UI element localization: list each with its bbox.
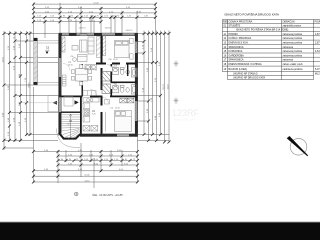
wire dim line b7 xyxy=(34,181,138,183)
node ticks line3 xyxy=(32,11,157,14)
svg-text:17: 17 xyxy=(224,59,227,62)
kitchen left column units xyxy=(83,103,98,131)
coffee table living xyxy=(72,46,78,51)
svg-text:26,10: 26,10 xyxy=(68,64,73,66)
svg-text:OZNAKA PROSTORA: OZNAKA PROSTORA xyxy=(229,21,253,24)
balcony slab lines xyxy=(34,41,59,85)
table grid xyxy=(223,20,320,80)
wire extension lines right xyxy=(138,34,170,141)
svg-text:zatvorena povšina: zatvorena povšina xyxy=(283,54,303,57)
desk bedroom BR xyxy=(105,100,110,105)
svg-text:C7: C7 xyxy=(114,65,118,67)
svg-text:11,10: 11,10 xyxy=(84,180,90,182)
window glass lines top wall xyxy=(62,33,135,35)
label numbers right rotated xyxy=(142,44,169,120)
bath1 wc xyxy=(120,68,124,75)
door arc bath1 xyxy=(121,65,127,71)
svg-text:BALKON (LOĐA): BALKON (LOĐA) xyxy=(229,68,248,71)
svg-text:12,6: 12,6 xyxy=(67,124,71,126)
svg-text:4,64: 4,64 xyxy=(315,50,320,53)
wire dim line b3 xyxy=(58,160,138,162)
bath1 bidet xyxy=(126,70,129,75)
svg-text:natkrivena povšina: natkrivena povšina xyxy=(283,68,304,71)
svg-text:STUBIŠTE: STUBIŠTE xyxy=(229,24,241,27)
node ticks line5 xyxy=(32,20,103,23)
washer dryer pair corridor xyxy=(85,65,96,70)
svg-text:zajednički prostor: zajednički prostor xyxy=(283,24,302,27)
sofa living room piece A xyxy=(78,34,95,62)
svg-text:5,07: 5,07 xyxy=(315,68,320,71)
wire vertical dim lines right xyxy=(144,31,169,143)
stairs treads xyxy=(61,114,81,139)
wall interior kitchen horizontal xyxy=(59,96,138,98)
svg-text:zatvorena povšina: zatvorena povšina xyxy=(283,37,303,40)
wall stairwell top xyxy=(61,112,80,113)
wall left exterior xyxy=(59,33,62,136)
wall interior bedroom divider vertical xyxy=(101,36,103,134)
wire dim line 1 xyxy=(34,3,156,5)
svg-text:HODNIK: HODNIK xyxy=(229,33,239,36)
wall interior hall divider vertical xyxy=(82,64,84,96)
dining table with chairs xyxy=(71,65,91,85)
level marker circle xyxy=(74,192,78,196)
corridor closet row xyxy=(83,91,96,96)
svg-text:240/120: 240/120 xyxy=(126,30,133,32)
svg-text:12,20: 12,20 xyxy=(93,3,99,5)
svg-text:C6: C6 xyxy=(109,59,113,61)
svg-text:11: 11 xyxy=(224,33,227,36)
black footer bar xyxy=(0,222,320,240)
svg-text:+0,5: +0,5 xyxy=(45,50,50,52)
window glass line bottom wall xyxy=(117,134,129,136)
node ticks left column xyxy=(3,32,32,150)
bath1 sink counter xyxy=(112,68,118,75)
nightstand TR bed b xyxy=(130,54,133,59)
svg-text:11,50: 11,50 xyxy=(2,57,4,63)
label window tags above wall xyxy=(79,28,133,32)
wire extension lines top xyxy=(34,3,156,38)
side rail bedroom BR xyxy=(104,112,106,132)
svg-text:POVRŠ: POVRŠ xyxy=(315,21,320,24)
wire dim line b1 xyxy=(34,151,138,153)
wire dim line b5 xyxy=(34,170,138,172)
wardrobe hatched living xyxy=(97,37,101,58)
node ticks bottom lines xyxy=(32,150,139,184)
balcony left railing xyxy=(34,38,38,85)
svg-text:zatvorena: zatvorena xyxy=(283,59,294,62)
door arc bedroom TR xyxy=(107,65,113,71)
svg-text:10,70: 10,70 xyxy=(163,84,165,90)
bath1 tub xyxy=(131,68,136,77)
table vertical lines xyxy=(228,20,314,80)
svg-text:15: 15 xyxy=(224,50,227,53)
label numbers bottom xyxy=(44,150,136,183)
svg-text:ISKAZ NETO POVRŠINA DRUGOG KAT: ISKAZ NETO POVRŠINA DRUGOG KATA xyxy=(225,11,280,16)
door arc hall divider xyxy=(83,75,89,81)
svg-text:13,10: 13,10 xyxy=(115,107,120,109)
wall interior baths horizontal split xyxy=(111,82,137,84)
svg-text:C1: C1 xyxy=(111,107,115,109)
svg-text:16: 16 xyxy=(224,54,227,57)
svg-text:15,87: 15,87 xyxy=(113,59,118,61)
wire extension lines left xyxy=(4,34,58,149)
svg-text:GARDEROBA: GARDEROBA xyxy=(229,54,245,57)
wall top exterior xyxy=(59,33,138,36)
svg-text:zatvorena povšina: zatvorena povšina xyxy=(283,42,303,45)
wire extension lines bottom xyxy=(34,87,138,188)
svg-text:13: 13 xyxy=(224,42,227,45)
wall interior mid horizontal xyxy=(96,63,137,65)
svg-text:DNEVNI BORAVAK I KUHINJA: DNEVNI BORAVAK I KUHINJA xyxy=(229,63,263,66)
svg-text:OBRAČUN: OBRAČUN xyxy=(283,21,295,24)
table row texts xyxy=(223,21,320,80)
landing arrow xyxy=(75,100,79,104)
node ticks right column xyxy=(143,32,171,144)
table horizontal lines xyxy=(223,24,320,66)
node ticks line4 xyxy=(32,16,157,19)
radiator left wall xyxy=(63,75,67,86)
wall interior bath divider vertical xyxy=(111,64,113,67)
svg-text:KUĆNA / PRAONICA: KUĆNA / PRAONICA xyxy=(229,37,252,40)
svg-text:C5: C5 xyxy=(114,84,118,86)
bath2 sink counter xyxy=(112,86,118,93)
wall stairwell right vertical xyxy=(80,97,82,135)
wall bottom exterior xyxy=(80,134,138,137)
door arc living entry xyxy=(63,64,70,71)
wire dim line 5 xyxy=(34,21,102,23)
svg-text:123RF: 123RF xyxy=(172,108,200,118)
wire dim line b6 xyxy=(34,175,138,177)
wardrobe hatched bedroom TR xyxy=(103,36,106,56)
node ticks line2 xyxy=(32,7,157,10)
svg-text:DNEVNI B.S KUH.: DNEVNI B.S KUH. xyxy=(229,42,249,45)
wire dim line 4 xyxy=(34,16,156,18)
svg-text:4,87: 4,87 xyxy=(315,33,320,36)
svg-text:zatvorena povšina: zatvorena povšina xyxy=(283,33,303,36)
landing closet xyxy=(64,97,73,107)
svg-text:UKUPNO NP STANA 5: UKUPNO NP STANA 5 xyxy=(233,73,258,76)
round chair living xyxy=(73,58,77,62)
table outer border xyxy=(223,20,320,72)
svg-text:KUPAONICA: KUPAONICA xyxy=(229,50,243,53)
svg-text:REL. ±0,00=APS. +10,85: REL. ±0,00=APS. +10,85 xyxy=(93,193,124,197)
svg-text:86,2: 86,2 xyxy=(315,73,320,76)
bath2 bidet xyxy=(126,87,129,92)
wardrobe hatched pair bedroom BR xyxy=(120,98,134,103)
north arrow xyxy=(287,136,308,156)
wall interior bath split vertical xyxy=(127,64,128,76)
window glass lines right wall xyxy=(135,42,137,122)
svg-text:14: 14 xyxy=(224,46,227,49)
benchmark symbol 2 xyxy=(174,98,179,105)
window sill arrow xyxy=(53,101,58,105)
svg-text:zatvorena: zatvorena xyxy=(283,46,294,49)
svg-text:ISKAZ NETO POVRŠINA STANA BR 5: ISKAZ NETO POVRŠINA STANA BR 5 (4 SOBE) xyxy=(236,29,288,32)
svg-text:140/120: 140/120 xyxy=(105,28,112,30)
svg-text:www.123rf.com: www.123rf.com xyxy=(174,118,195,122)
svg-text:zatvor.+natkr. povš.: zatvor.+natkr. povš. xyxy=(283,63,304,66)
node ticks line1 xyxy=(32,3,157,6)
svg-text:2,87: 2,87 xyxy=(315,42,320,45)
svg-text:10,15: 10,15 xyxy=(28,82,30,88)
svg-text:19: 19 xyxy=(224,68,227,71)
wire dim line b4 xyxy=(58,164,138,166)
wire dim line 2 xyxy=(34,8,156,10)
svg-text:9,25: 9,25 xyxy=(92,114,96,116)
window glass lines left wall xyxy=(59,58,61,112)
door arc bedroom BR xyxy=(103,98,109,104)
wall stair bay chamfer xyxy=(59,133,81,139)
bed bedroom top-right xyxy=(115,41,130,58)
svg-text:UKUPNO NP DRUGOG KATA: UKUPNO NP DRUGOG KATA xyxy=(233,77,266,80)
bath2 tub xyxy=(131,85,136,94)
svg-text:SPAVAONICA: SPAVAONICA xyxy=(229,46,244,49)
wire vertical dim lines left xyxy=(4,31,30,150)
svg-text:zatvorena povšina: zatvorena povšina xyxy=(283,50,303,53)
svg-text:11,10: 11,10 xyxy=(167,84,169,90)
nightstand TR bed a xyxy=(130,38,133,43)
kitchen counter top xyxy=(83,98,99,102)
svg-text:10,45: 10,45 xyxy=(84,175,90,177)
door arc corridor to bath1 xyxy=(91,65,97,71)
tv cabinet left wall xyxy=(62,37,65,52)
label numbers left rotated xyxy=(2,36,30,136)
bed bedroom bottom-right xyxy=(115,111,132,132)
svg-text:01: 01 xyxy=(224,24,227,27)
svg-text:140/120: 140/120 xyxy=(79,28,86,30)
wire dim line 3 xyxy=(34,12,156,14)
label numbers top xyxy=(37,3,149,23)
shaft upper hatched xyxy=(102,72,111,82)
shaft lower hatched xyxy=(102,84,111,94)
left wall window ledge box xyxy=(48,96,59,112)
table bottom extra rows xyxy=(228,72,314,80)
stair bay outer arc xyxy=(56,129,80,148)
node C5 level triangle xyxy=(45,47,50,54)
benchmark symbol 1 xyxy=(174,61,179,68)
bath2 wc xyxy=(120,85,124,92)
door arc corridor bottom xyxy=(91,90,97,96)
wall right exterior xyxy=(135,33,138,137)
wire dim line b2 xyxy=(58,155,138,157)
svg-text:12: 12 xyxy=(224,37,227,40)
svg-text:18: 18 xyxy=(224,63,227,66)
svg-text:SPAVAONICA: SPAVAONICA xyxy=(229,59,244,62)
